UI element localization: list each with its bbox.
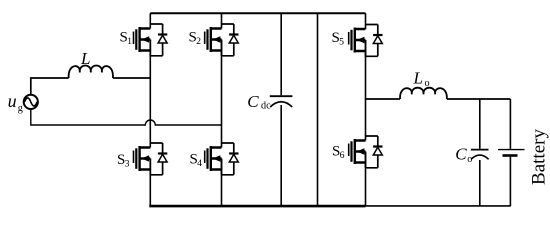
svg-text:u: u (8, 91, 17, 111)
svg-text:C: C (455, 145, 467, 164)
svg-text:o: o (467, 154, 472, 165)
svg-text:5: 5 (339, 37, 344, 48)
svg-text:L: L (80, 49, 90, 68)
svg-text:o: o (425, 78, 430, 89)
svg-text:3: 3 (125, 159, 130, 170)
svg-text:g: g (18, 103, 23, 114)
svg-text:2: 2 (196, 36, 201, 47)
svg-text:1: 1 (127, 36, 132, 47)
svg-text:dc: dc (261, 100, 271, 111)
svg-text:4: 4 (197, 158, 202, 169)
svg-text:C: C (247, 92, 259, 111)
svg-text:L: L (413, 68, 423, 87)
svg-text:6: 6 (340, 150, 345, 161)
svg-text:Battery: Battery (529, 129, 550, 185)
